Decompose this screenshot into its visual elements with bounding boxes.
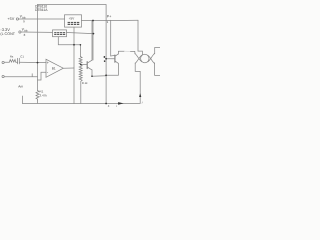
svg-text:(L CONT: (L CONT: [0, 32, 15, 36]
svg-text:-: -: [47, 70, 49, 75]
svg-text:9: 9: [23, 20, 25, 24]
svg-text:4: 4: [108, 104, 110, 108]
svg-text:1: 1: [107, 20, 109, 24]
svg-text:i: i: [142, 101, 143, 105]
svg-text:+5V: +5V: [7, 17, 14, 21]
svg-text:DTB11A: DTB11A: [35, 8, 48, 12]
svg-text:3.47k: 3.47k: [40, 93, 48, 97]
svg-text:P+: P+: [107, 14, 112, 18]
svg-text:R.1k: R.1k: [82, 82, 88, 85]
svg-text:+5V: +5V: [69, 17, 76, 21]
svg-text:Rs: Rs: [10, 54, 14, 58]
svg-text:Am: Am: [18, 85, 23, 89]
svg-text:8: 8: [24, 33, 26, 37]
svg-text:C1: C1: [20, 55, 24, 59]
svg-text:B1: B1: [52, 66, 56, 70]
svg-text:i: i: [116, 104, 117, 108]
